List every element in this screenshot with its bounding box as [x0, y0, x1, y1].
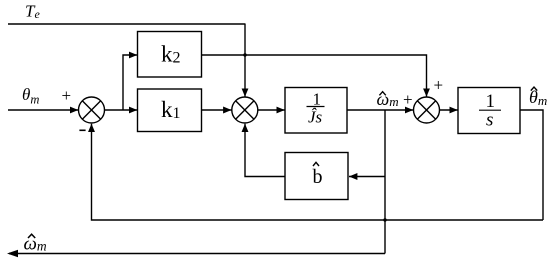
wire S2 output to 1/Js block — [258, 109, 285, 111]
wire into b block — [349, 176, 385, 178]
wire branch up to k2 — [123, 55, 137, 110]
wire 1/Js output to S3 — [347, 109, 413, 111]
wire omega_m_hat bottom output — [9, 253, 385, 255]
node theta_m_hat output label — [529, 87, 547, 108]
wire b output to S2 bottom — [245, 124, 285, 177]
wire k1 output to S2 — [202, 109, 232, 111]
block 1/Js — [285, 88, 347, 134]
block b_hat — [285, 153, 348, 200]
wire 1/s output and right drop — [520, 110, 543, 220]
node omega_m_hat label — [377, 89, 399, 109]
summing junction S3 — [414, 97, 440, 123]
svg-text:+: + — [434, 76, 444, 95]
svg-text:s: s — [486, 110, 493, 131]
block k1 — [138, 89, 202, 132]
wire Te drop into summing junction S2 — [244, 24, 246, 97]
wire S1 output to k1 — [105, 109, 138, 111]
svg-text:Ĵs: Ĵs — [308, 107, 323, 126]
junction dot crossing k2 output — [243, 53, 246, 56]
node omega_m_hat bottom label — [24, 234, 47, 255]
wire outer feedback to S1 — [92, 124, 544, 220]
block 1/s — [458, 88, 520, 134]
wire theta_m input arrow — [8, 109, 78, 111]
svg-text:1: 1 — [313, 90, 322, 109]
wire omega branch down — [384, 110, 386, 254]
block k2 — [138, 32, 202, 78]
arrowhead omega_m_hat output — [7, 250, 18, 257]
svg-text:b: b — [313, 166, 323, 188]
minus sign at summing junction S1 — [79, 129, 85, 131]
junction dot at feedback crossing — [383, 218, 386, 221]
wire S3 output to 1/s block — [440, 109, 458, 111]
svg-text:+: + — [403, 90, 413, 109]
wire Te horizontal — [8, 23, 246, 25]
wire k2 output to S3 — [202, 55, 427, 97]
summing junction S1 — [79, 97, 105, 123]
summing junction S2 — [232, 97, 258, 123]
svg-text:+: + — [62, 86, 72, 105]
